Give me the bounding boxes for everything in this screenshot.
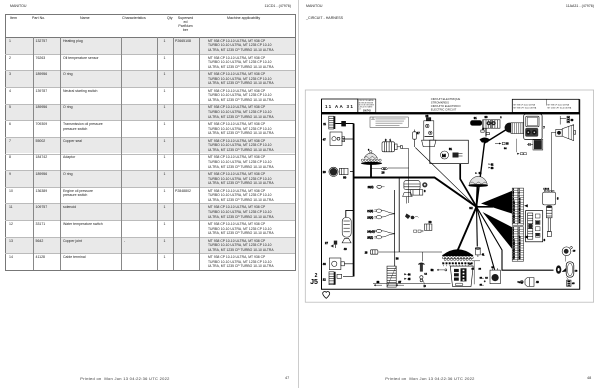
- svg-text:24: 24: [519, 254, 521, 256]
- svg-text:25: 25: [513, 256, 515, 258]
- svg-text:5: 5: [513, 194, 514, 196]
- svg-text:4: 4: [519, 230, 520, 232]
- svg-text:49: 49: [536, 281, 539, 284]
- svg-text:11: 11: [513, 201, 515, 203]
- svg-text:16: 16: [519, 244, 521, 246]
- svg-text:23: 23: [513, 254, 515, 256]
- svg-text:15: 15: [513, 205, 515, 207]
- svg-text:13: 13: [513, 203, 515, 205]
- svg-text:30: 30: [452, 263, 454, 265]
- svg-text:6: 6: [519, 194, 520, 196]
- svg-text:19: 19: [513, 249, 515, 251]
- svg-text:27: 27: [513, 258, 515, 260]
- svg-text:39: 39: [571, 119, 574, 122]
- svg-text:14: 14: [519, 203, 521, 205]
- svg-text:25: 25: [513, 217, 515, 219]
- svg-text:+: +: [484, 280, 486, 283]
- svg-text:17: 17: [417, 131, 420, 135]
- svg-text:7: 7: [513, 235, 514, 237]
- svg-text:15: 15: [513, 244, 515, 246]
- svg-text:9: 9: [513, 237, 514, 239]
- svg-text:500743: 500743: [363, 110, 371, 113]
- svg-text:3: 3: [424, 189, 426, 193]
- svg-text:31: 31: [474, 116, 477, 120]
- svg-text:28: 28: [519, 220, 521, 222]
- svg-text:D: D: [424, 284, 427, 288]
- svg-text:1 2 3 4: 1 2 3 4: [544, 188, 550, 190]
- svg-text:35 -: 35 -: [480, 284, 484, 286]
- svg-text:27: 27: [513, 220, 515, 222]
- svg-text:6: 6: [519, 232, 520, 234]
- svg-text:2: 2: [385, 138, 387, 142]
- svg-text:11: 11: [513, 240, 515, 242]
- svg-text:11: 11: [323, 122, 326, 126]
- svg-text:36: 36: [461, 263, 463, 265]
- svg-text:16: 16: [519, 205, 521, 207]
- svg-text:2: 2: [519, 189, 520, 191]
- svg-text:9: 9: [513, 198, 514, 200]
- svg-text:14: 14: [424, 273, 427, 275]
- svg-text:19: 19: [573, 250, 576, 252]
- svg-text:23(X): 23(X): [367, 217, 373, 220]
- svg-text:26: 26: [479, 269, 482, 271]
- svg-text:41: 41: [482, 253, 485, 256]
- svg-text:38: 38: [465, 263, 467, 265]
- svg-text:16: 16: [485, 278, 488, 280]
- svg-text:5: 5: [513, 232, 514, 234]
- svg-text:7: 7: [543, 126, 545, 130]
- svg-text:32: 32: [469, 206, 473, 210]
- svg-text:20: 20: [519, 210, 521, 212]
- svg-text:11 AA 31: 11 AA 31: [325, 104, 354, 109]
- svg-text:17: 17: [513, 208, 515, 210]
- svg-text:12: 12: [519, 240, 521, 242]
- svg-text:12: 12: [323, 278, 326, 282]
- svg-text:MT 938 CP 10-10 ULTRA: MT 938 CP 10-10 ULTRA: [514, 103, 536, 106]
- svg-text:13: 13: [513, 242, 515, 244]
- svg-text:CIRCUITO ELECTRICO: CIRCUITO ELECTRICO: [431, 104, 461, 108]
- svg-text:CIRCUIT ELECTRIQUE: CIRCUIT ELECTRIQUE: [431, 97, 461, 101]
- svg-text:8: 8: [519, 235, 520, 237]
- svg-text:18: 18: [575, 271, 578, 273]
- svg-text:29: 29: [323, 170, 326, 174]
- svg-text:45: 45: [408, 278, 411, 281]
- svg-text:28: 28: [425, 114, 428, 118]
- svg-text:30: 30: [519, 222, 521, 224]
- svg-text:26: 26: [519, 217, 521, 219]
- svg-text:22: 22: [519, 251, 521, 253]
- svg-text:2: 2: [500, 117, 502, 119]
- svg-text:21(X): 21(X): [367, 210, 373, 213]
- svg-text:23: 23: [513, 215, 515, 217]
- svg-text:2: 2: [519, 228, 520, 230]
- svg-text:1: 1: [390, 138, 392, 142]
- svg-text:27: 27: [325, 241, 328, 245]
- svg-text:26: 26: [446, 263, 448, 265]
- svg-text:4 (4): 4 (4): [519, 282, 523, 284]
- svg-text:21: 21: [513, 251, 515, 253]
- svg-text:50: 50: [343, 176, 346, 180]
- svg-text:17: 17: [513, 247, 515, 249]
- svg-text:1: 1: [513, 189, 514, 191]
- svg-text:51: 51: [449, 147, 452, 151]
- svg-text:34: 34: [458, 263, 460, 265]
- svg-text:34: 34: [504, 148, 507, 150]
- svg-text:30: 30: [485, 115, 488, 119]
- svg-text:12: 12: [519, 201, 521, 203]
- svg-text:63: 63: [491, 167, 494, 170]
- svg-text:24: 24: [442, 263, 444, 265]
- svg-text:7: 7: [513, 196, 514, 198]
- svg-text:MT 938 CPT 10-10 ULTRA: MT 938 CPT 10-10 ULTRA: [514, 107, 537, 110]
- svg-text:3: 3: [513, 230, 514, 232]
- svg-text:28: 28: [365, 252, 368, 255]
- svg-text:4: 4: [519, 191, 520, 193]
- svg-text:19: 19: [513, 210, 515, 212]
- svg-text:18: 18: [519, 208, 521, 210]
- svg-text:46: 46: [323, 262, 326, 266]
- svg-text:29: 29: [513, 222, 515, 224]
- svg-text:3: 3: [513, 191, 514, 193]
- svg-text:24: 24: [519, 215, 521, 217]
- svg-text:10: 10: [519, 198, 521, 200]
- svg-text:M: M: [442, 153, 446, 158]
- svg-text:20: 20: [519, 249, 521, 251]
- svg-text:6: 6: [544, 238, 546, 242]
- svg-text:21: 21: [513, 213, 515, 215]
- svg-text:40: 40: [572, 283, 575, 285]
- svg-text:20: 20: [429, 220, 432, 224]
- svg-text:1: 1: [513, 228, 514, 230]
- svg-text:22: 22: [519, 213, 521, 215]
- svg-text:28: 28: [519, 258, 521, 260]
- svg-text:47: 47: [323, 138, 326, 142]
- svg-text:49: 49: [344, 247, 347, 251]
- svg-text:44: 44: [408, 274, 411, 277]
- svg-text:5: 5: [557, 197, 559, 201]
- svg-text:62: 62: [491, 163, 494, 166]
- svg-text:26: 26: [519, 256, 521, 258]
- svg-text:ELECTRIC CIRCUIT: ELECTRIC CIRCUIT: [431, 108, 457, 112]
- svg-text:MT 1235 CPT 10-10 ULTRA: MT 1235 CPT 10-10 ULTRA: [548, 107, 572, 110]
- svg-text:49: 49: [482, 128, 484, 130]
- svg-text:em: em: [359, 109, 362, 111]
- svg-text:28: 28: [449, 263, 451, 265]
- svg-text:32: 32: [455, 263, 457, 265]
- svg-text:26: 26: [382, 171, 385, 175]
- svg-text:18: 18: [519, 247, 521, 249]
- svg-text:24(+D): 24(+D): [367, 230, 375, 233]
- svg-text:10: 10: [519, 237, 521, 239]
- svg-text:STROMKREIS: STROMKREIS: [431, 101, 449, 105]
- svg-text:52: 52: [431, 269, 434, 272]
- svg-text:14: 14: [519, 242, 521, 244]
- svg-text:8: 8: [519, 196, 520, 198]
- svg-text:22(X): 22(X): [368, 186, 374, 189]
- svg-text:36: 36: [396, 257, 399, 260]
- svg-text:MT 938 CP 10-10 ULTRA: MT 938 CP 10-10 ULTRA: [548, 103, 570, 106]
- svg-text:25(Z): 25(Z): [367, 237, 373, 240]
